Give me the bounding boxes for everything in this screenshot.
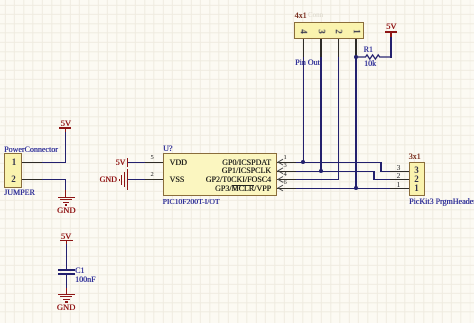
connector JUMPER body bbox=[4, 153, 22, 188]
power port GND (cap) bars bbox=[58, 294, 76, 296]
connector 4x1 header body bbox=[294, 22, 364, 40]
wire corner down to GND bbox=[65, 179, 66, 190]
jumper pin2 line bbox=[22, 179, 42, 180]
wire to header pin3 bbox=[380, 171, 390, 172]
pin GP0 line bbox=[277, 162, 296, 163]
jumper pin1 line bbox=[22, 162, 42, 163]
junction dot GP3/header1 bbox=[354, 186, 358, 190]
wire GP1 row bbox=[296, 171, 375, 172]
power port GND (cap) text bbox=[57, 303, 75, 312]
wire header pin4 down to GP0 bbox=[303, 57, 304, 163]
overline over MCLR bbox=[232, 184, 255, 187]
pin stub 4 bbox=[303, 39, 304, 57]
wire corner up to 5V bbox=[65, 131, 66, 163]
label R1 bbox=[364, 46, 373, 54]
power port GND (VSS) bars bbox=[127, 169, 128, 190]
capacitor C1 top plate bbox=[58, 269, 75, 270]
header pin2 line bbox=[390, 179, 409, 180]
junction dot GP0/header4 bbox=[301, 160, 305, 164]
IC U? body PIC10F200 bbox=[163, 153, 277, 195]
pin GP1 line bbox=[277, 171, 296, 172]
pin stub 2 bbox=[338, 39, 339, 57]
header pin 3 digit bbox=[414, 166, 419, 175]
designator 3x1 bbox=[409, 153, 421, 161]
pin number 6 (GP3) bbox=[284, 180, 287, 187]
external pin number 3 bbox=[397, 164, 401, 172]
pin number 3 (rotated) bbox=[317, 29, 326, 34]
pin name GP0/ICSPDAT bbox=[222, 159, 271, 167]
pin VSS line bbox=[145, 179, 163, 180]
IO arrows on right pins bbox=[277, 158, 287, 192]
pin number 2 bbox=[151, 172, 154, 179]
pin name GP1/ICSPCLK bbox=[222, 167, 271, 175]
power port GND (cap) stub bbox=[66, 288, 67, 294]
pin stub 3 bbox=[320, 39, 321, 57]
header pin 1 digit bbox=[414, 184, 419, 193]
power port 5V (cap) text bbox=[61, 232, 71, 241]
pin number 1 (GP0) bbox=[284, 155, 287, 162]
wire C1 to GND bbox=[66, 275, 67, 288]
power port 5V (top right) stub bbox=[390, 33, 391, 37]
wire GP3 row bbox=[296, 188, 390, 189]
header pin 2 digit bbox=[414, 175, 419, 184]
wire pin1 to corner bbox=[42, 162, 66, 163]
capacitor C1 bottom plate bbox=[58, 273, 75, 274]
jumper pin 2 digit bbox=[11, 175, 16, 184]
power port 5V (top right) text bbox=[386, 22, 396, 31]
pin GP3 line bbox=[277, 188, 296, 189]
power port GND (jumper) stub bbox=[65, 190, 66, 197]
pin VDD line bbox=[145, 162, 163, 163]
pin name VDD bbox=[170, 159, 187, 167]
part name PIC10F200T-I/OT bbox=[163, 198, 220, 206]
wire GP0 row bbox=[296, 162, 382, 163]
header pin1 line bbox=[390, 188, 409, 189]
designator JUMPER bbox=[4, 189, 35, 197]
power port 5V (cap) bar bbox=[60, 240, 73, 242]
power port GND (jumper) text bbox=[57, 206, 75, 215]
wire GP0 bend down bbox=[380, 162, 381, 172]
pin stub 1 bbox=[355, 39, 356, 57]
jumper pin 1 digit bbox=[12, 158, 17, 167]
wire GP1 bend down bbox=[373, 171, 374, 181]
power port 5V (jumper) text bbox=[61, 119, 71, 128]
pin name GP3/MCLR/VPP bbox=[215, 185, 271, 193]
part name PowerConnector bbox=[4, 146, 58, 154]
wire header pin3 down to GP1 bbox=[320, 57, 321, 172]
pin name VSS bbox=[170, 176, 185, 184]
junction dot R1/pin1 wire bbox=[354, 55, 358, 59]
wire R1 to 5V riser bbox=[390, 36, 391, 58]
label C1 bbox=[75, 267, 84, 275]
wire pin2 to corner bbox=[42, 179, 66, 180]
connector 3x1 header body bbox=[409, 162, 425, 196]
pin number 2 (rotated) bbox=[334, 29, 343, 34]
pin number 4 (GP2) bbox=[284, 172, 287, 179]
part name PicKit3 PrgmHeader bbox=[409, 198, 474, 206]
value 100nF bbox=[75, 276, 95, 284]
pin number 1 (rotated) bbox=[352, 29, 361, 34]
designator 4x1 bbox=[295, 12, 307, 20]
external pin number 2 bbox=[397, 172, 401, 180]
external pin number 1 bbox=[397, 181, 401, 189]
power port 5V (jumper) stub bbox=[65, 129, 66, 132]
resistor R1 bbox=[356, 50, 392, 64]
wire GP2 row bbox=[296, 179, 340, 180]
net label Pin Out bbox=[295, 59, 320, 67]
pin GP2 line bbox=[277, 179, 296, 180]
junction dot GP1/header3 bbox=[319, 169, 323, 173]
power port 5V (jumper) bar bbox=[59, 127, 71, 129]
pin name GP2/T0CKI/FOSC4 bbox=[206, 176, 271, 184]
power port GND (jumper) bars bbox=[58, 197, 75, 199]
hidden comment text bbox=[308, 12, 323, 19]
designator U? bbox=[163, 145, 172, 153]
wire 5V to VDD bbox=[128, 162, 145, 163]
power port GND (VSS) text bbox=[100, 176, 117, 184]
value 10k bbox=[364, 60, 376, 68]
wire 5V to C1 bbox=[66, 244, 67, 269]
pin number 3 (GP1) bbox=[284, 163, 287, 170]
wire GND to VSS bbox=[128, 179, 145, 180]
power port 5V (top right) bar bbox=[385, 31, 397, 33]
header pin3 line bbox=[390, 171, 409, 172]
hidden gray mark bbox=[59, 146, 61, 151]
power port 5V (cap) stub bbox=[66, 241, 67, 244]
wire to header pin2 bbox=[373, 179, 390, 180]
wire header pin2 down to GP2 bbox=[338, 57, 339, 180]
power port 5V (VDD) bar bbox=[127, 158, 128, 166]
power port 5V (VDD) text bbox=[116, 159, 126, 167]
pin number 5 bbox=[151, 155, 154, 162]
pin number 4 (rotated) bbox=[299, 29, 308, 34]
wire header pin1 down to GP3 bbox=[355, 57, 356, 189]
